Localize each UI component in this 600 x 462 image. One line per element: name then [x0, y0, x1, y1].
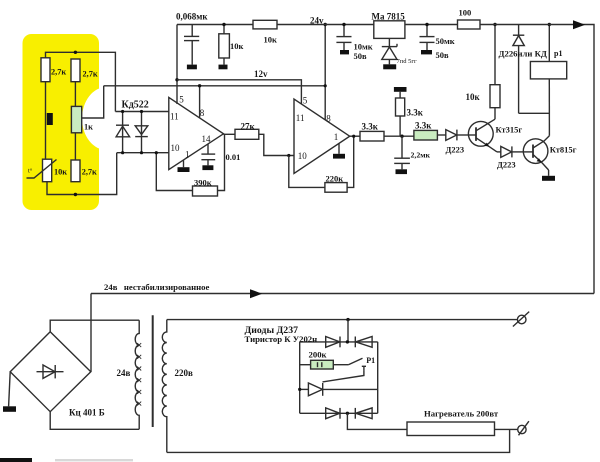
svg-text:Д226или КД: Д226или КД: [499, 48, 547, 58]
wire 24в unregulated: [91, 282, 594, 294]
wire U2 output: [350, 135, 360, 137]
wire to summing node: [384, 135, 414, 137]
capacitor 10мк 50в: [336, 23, 372, 61]
capacitor C2 0.01: [201, 144, 240, 170]
svg-text:50в: 50в: [436, 50, 450, 60]
artifact bottom text: [55, 459, 133, 461]
regulator U3 Ма 7815: [372, 12, 406, 39]
wire left branch: [45, 82, 47, 160]
potentiometer R3 1к: [71, 106, 93, 132]
resistor R2 2,7к: [71, 59, 98, 82]
relay contact Р1: [348, 356, 375, 371]
svg-text:10: 10: [298, 151, 308, 161]
junction 10к rail: [493, 23, 496, 26]
wire 27к to U2 pin10: [259, 134, 294, 155]
wire bus rail: [104, 85, 326, 87]
wire right branch middle: [74, 133, 76, 160]
resistor 220к: [325, 174, 347, 193]
junction U2 output: [352, 135, 355, 138]
diode VD7 Д237: [326, 337, 340, 348]
svg-text:0,068мк: 0,068мк: [176, 12, 208, 22]
wire bridge AC bottom: [50, 412, 139, 430]
capacitor 2,2мк: [394, 136, 430, 174]
svg-text:24v: 24v: [310, 16, 324, 26]
resistor 200к: [300, 350, 349, 370]
wire U1 pin11 input: [115, 111, 168, 113]
svg-text:11: 11: [170, 112, 179, 122]
wire U1 pin5 stub: [176, 25, 178, 105]
ground U1 pin1: [178, 160, 190, 172]
junction pin8 rail: [198, 84, 201, 87]
svg-text:12v: 12v: [254, 69, 268, 79]
terminal X2: [518, 421, 529, 435]
thyristor bridge frame: [300, 342, 378, 413]
svg-text:Д223: Д223: [446, 145, 465, 155]
diode VD10 Д237: [355, 408, 372, 419]
svg-text:220к: 220к: [326, 174, 344, 184]
resistor 10к filter: [219, 23, 244, 69]
junction feedback: [155, 151, 158, 154]
diode VD8 Д237: [355, 337, 372, 348]
diode VD3 Д223: [446, 130, 465, 155]
resistor 100: [458, 8, 481, 30]
svg-text:200к: 200к: [309, 350, 327, 360]
junction bridge bottom mid: [346, 412, 349, 415]
resistor 3.3к green: [414, 121, 438, 141]
wire U1 pin10 input: [117, 152, 169, 154]
junction bridge top: [74, 51, 77, 54]
resistor 390к: [193, 178, 218, 197]
diode VD1 Кд522: [116, 112, 130, 153]
junction summing node: [400, 135, 403, 138]
wire 10к to rail: [494, 25, 496, 85]
wire flyback bottom: [519, 112, 550, 114]
wire Q1 collector: [494, 108, 496, 120]
svg-text:t°: t°: [28, 168, 33, 175]
svg-text:8: 8: [326, 114, 331, 124]
junction load top: [346, 318, 349, 321]
svg-text:10к: 10к: [54, 168, 67, 177]
wire U1 pin8 stub: [199, 86, 201, 118]
junction pin8 rail2: [324, 84, 327, 87]
svg-text:2,7к: 2,7к: [51, 68, 66, 77]
wire AC to thyristor bridge: [347, 320, 349, 342]
thyristor VS1 КУ202н: [298, 383, 378, 396]
ground Q2 emitter: [542, 170, 555, 181]
sensor bridge highlight: [23, 34, 132, 210]
svg-text:1: 1: [334, 132, 339, 142]
junction diode taps: [121, 110, 143, 154]
svg-text:Р1: Р1: [366, 356, 375, 365]
polarity mark: [47, 113, 53, 125]
svg-text:5: 5: [303, 96, 308, 106]
wire U2 feedback left: [289, 156, 325, 188]
svg-text:5: 5: [179, 95, 184, 105]
wire to VD3: [437, 134, 445, 136]
wire bridge out to heater: [347, 413, 407, 429]
svg-text:Кт815г: Кт815г: [550, 145, 577, 155]
svg-text:8: 8: [200, 108, 205, 118]
junction 12v tap: [175, 78, 178, 81]
wire bridge AC top: [50, 320, 139, 332]
wire bridge top: [46, 52, 116, 111]
svg-text:1: 1: [185, 150, 190, 160]
svg-text:2,7к: 2,7к: [83, 70, 98, 79]
thermistor R4 10к: [27, 159, 68, 182]
resistor 10к series: [253, 20, 277, 44]
wire U2 pin8 stub: [324, 25, 326, 120]
wire +15v rail: [177, 25, 594, 294]
arrow +15 feed: [573, 20, 585, 29]
svg-text:Д223: Д223: [497, 160, 516, 170]
svg-text:10к: 10к: [230, 41, 244, 51]
arrow 24в: [250, 289, 262, 298]
junction bridge top mid: [346, 340, 349, 343]
wire Q2 collector to relay: [548, 79, 550, 136]
diode VD9 Д237: [326, 408, 340, 419]
zener VD6: [382, 38, 417, 69]
svg-text:7пd 5гг: 7пd 5гг: [397, 58, 418, 65]
transformer core: [152, 315, 154, 427]
svg-text:10к: 10к: [466, 92, 481, 102]
svg-text:100: 100: [459, 8, 472, 18]
transistor Q2 Кт815г: [523, 136, 576, 170]
wire 12v supply: [177, 69, 301, 104]
transformer secondary 220в winding: [162, 320, 193, 453]
svg-text:11: 11: [296, 113, 305, 123]
heater Нагреватель 200вт: [407, 408, 499, 435]
svg-text:Кт315г: Кт315г: [496, 125, 523, 135]
svg-text:Нагреватель 200вт: Нагреватель 200вт: [424, 408, 499, 418]
ground bridge: [3, 372, 16, 412]
wire VD4 to Q2 base: [512, 151, 523, 153]
artifact bottom left: [0, 458, 32, 462]
svg-text:Тиристор К У202н: Тиристор К У202н: [245, 334, 318, 344]
svg-text:0.01: 0.01: [226, 152, 241, 162]
svg-text:220в: 220в: [175, 368, 194, 378]
rectifier bridge Кц401Б: [10, 332, 105, 418]
resistor 3.3к first: [360, 122, 384, 142]
svg-text:3.3к: 3.3к: [362, 122, 379, 132]
wire gate: [323, 370, 364, 382]
svg-text:390к: 390к: [194, 178, 212, 188]
svg-text:24в нестабилизированное: 24в нестабилизированное: [104, 282, 210, 292]
junction pin8 top: [324, 23, 327, 26]
svg-text:р1: р1: [554, 49, 562, 58]
wire Q1 emitter out: [497, 151, 501, 153]
op-amp U2: [294, 96, 350, 174]
svg-text:27к: 27к: [241, 122, 256, 132]
resistor R5 2,7к: [71, 160, 97, 182]
junction U2 input: [287, 154, 290, 157]
transistor Q1 Кт315г: [468, 119, 522, 152]
svg-text:Кц 401 Б: Кц 401 Б: [69, 408, 105, 418]
wire bridge to 24в: [90, 294, 92, 372]
svg-text:3.3к: 3.3к: [407, 108, 424, 118]
resistor 3.3к vertical: [394, 87, 424, 136]
transformer primary 24в winding: [117, 320, 142, 429]
diode VD5 Д226: [499, 25, 547, 114]
op-amp U1: [169, 95, 224, 170]
svg-text:Ма 7815: Ма 7815: [372, 12, 406, 22]
ground U2 pin1: [333, 143, 345, 158]
relay coil P1: [530, 23, 566, 79]
svg-text:Кд522: Кд522: [122, 100, 149, 111]
terminal X1: [513, 312, 529, 327]
svg-text:2,2мк: 2,2мк: [411, 150, 431, 159]
wire bridge bottom: [47, 153, 117, 195]
wire return: [167, 429, 510, 452]
wire heater to terminal: [495, 428, 518, 430]
resistor 10к collector: [466, 85, 501, 108]
capacitor 50мк 50в: [420, 23, 455, 60]
wire feedback to pin10: [156, 153, 192, 191]
svg-text:14: 14: [202, 134, 212, 144]
wire 220к to output: [347, 136, 354, 187]
wire right branch upper: [74, 82, 76, 107]
diode VD4 Д223: [497, 146, 516, 169]
wire U1 output: [224, 133, 236, 135]
wire U1 output to feedback: [218, 134, 225, 190]
svg-text:10: 10: [171, 143, 181, 153]
svg-text:50мк: 50мк: [436, 36, 455, 46]
wire 1к wiper: [82, 86, 104, 118]
svg-text:50в: 50в: [354, 51, 368, 61]
junction bridge bottom: [74, 193, 77, 196]
capacitor 0,068мк: [176, 12, 208, 70]
diode VD2 Кд522: [135, 112, 148, 153]
svg-text:3.3к: 3.3к: [415, 121, 432, 131]
wire load top: [167, 319, 517, 321]
svg-text:2,7к: 2,7к: [82, 168, 97, 177]
resistor 27к: [235, 122, 259, 140]
svg-text:24в: 24в: [117, 368, 131, 378]
svg-text:10к: 10к: [264, 35, 278, 45]
resistor R1 2,7к: [41, 58, 66, 82]
wire VD3 to Q1 base: [457, 134, 470, 136]
svg-text:1к: 1к: [84, 123, 93, 132]
